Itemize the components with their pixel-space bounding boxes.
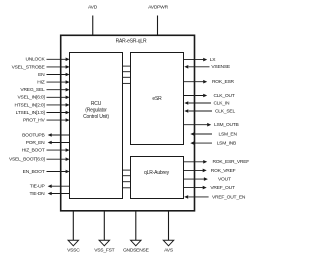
wire HIZ input	[37, 80, 69, 86]
wire UNLOCK input	[25, 57, 69, 63]
wire VREF_OUT output	[184, 185, 235, 191]
wire ROK_ESR_VREF output	[184, 159, 250, 165]
svg-text:Control Unit): Control Unit)	[83, 114, 109, 120]
bus RCU to qLR wire 2	[122, 175, 131, 177]
wire LSM_OUTB output	[184, 122, 239, 128]
wire TIE-UP output	[30, 184, 70, 190]
block qLR-Aubrey	[131, 157, 184, 199]
bus RCU to qLR wire 3	[122, 181, 131, 183]
wire HIZ_BOOT input	[22, 148, 70, 154]
svg-text:RCU: RCU	[91, 101, 102, 107]
bus RCU to qLR wire 4	[122, 187, 131, 189]
pin AVS	[163, 211, 174, 254]
outer block RAR-eSR-qLR	[61, 35, 195, 211]
svg-text:ROK_ESR: ROK_ESR	[212, 79, 235, 85]
svg-text:TIE-UP: TIE-UP	[30, 184, 45, 190]
svg-text:LSM_INB: LSM_INB	[217, 141, 236, 147]
svg-text:BOOTUPB: BOOTUPB	[22, 132, 44, 138]
svg-text:VSENSE: VSENSE	[211, 64, 230, 70]
svg-text:LTSEL_IN[1:0]: LTSEL_IN[1:0]	[16, 110, 46, 116]
svg-text:POR_EN: POR_EN	[26, 140, 45, 146]
svg-text:VSEL_IN[6:0]: VSEL_IN[6:0]	[18, 95, 46, 101]
bus RCU to eSR wire 1	[122, 65, 131, 67]
wire VOUT output	[184, 177, 231, 183]
svg-text:eSR: eSR	[152, 96, 162, 102]
bus RCU to qLR wire 1	[122, 169, 131, 171]
wire EN_BOOT input	[23, 169, 70, 175]
svg-text:CLK_SEL: CLK_SEL	[215, 108, 235, 114]
wire TIE-DN output	[30, 191, 70, 197]
svg-text:UNLOCK: UNLOCK	[25, 57, 45, 63]
svg-text:VSSC: VSSC	[67, 248, 80, 254]
pin AVDPWR	[148, 5, 168, 36]
pin VSSC	[67, 211, 80, 254]
wire ROK_VREF output	[184, 168, 236, 174]
block RCU (Regulator Control Unit)	[70, 53, 123, 199]
wire CLK_SEL input	[184, 108, 235, 114]
bus RCU to eSR wire 3	[122, 76, 131, 78]
wire LSM_INB input	[190, 141, 236, 147]
wire POR_EN output	[26, 140, 70, 146]
wire VREF_OUT_EN input	[184, 194, 246, 200]
wire VREG_SEL input	[20, 87, 69, 93]
svg-text:ROK_VREF: ROK_VREF	[211, 168, 236, 174]
svg-text:CLK_OUT: CLK_OUT	[214, 93, 235, 99]
svg-text:HIZ: HIZ	[37, 80, 44, 86]
svg-text:VSS_FST: VSS_FST	[94, 248, 114, 254]
wire HTSEL_IN[2:0] input	[14, 102, 69, 108]
wire ROK_ESR output	[184, 79, 235, 85]
pin VSS_FST	[94, 211, 114, 254]
svg-text:LSM_OUTB: LSM_OUTB	[214, 122, 239, 128]
svg-text:TIE-DN: TIE-DN	[30, 191, 46, 197]
wire LX output	[184, 57, 217, 63]
wire PROT_HV input	[23, 118, 70, 124]
svg-text:EN: EN	[38, 72, 45, 78]
svg-text:AVDPWR: AVDPWR	[148, 5, 168, 11]
svg-text:HIZ_BOOT: HIZ_BOOT	[22, 148, 45, 154]
wire VSEL_BOOT[6:0] input	[9, 157, 70, 163]
svg-text:PROT_HV: PROT_HV	[23, 118, 46, 124]
wire LSM_EN input	[190, 131, 237, 137]
block eSR	[131, 53, 184, 145]
pin GNDSENSE	[123, 211, 150, 254]
svg-text:VREG_SEL: VREG_SEL	[20, 87, 45, 93]
bus RCU to eSR wire 4	[122, 82, 131, 84]
svg-text:CLK_IN: CLK_IN	[214, 100, 230, 106]
svg-text:qLR-Aubrey: qLR-Aubrey	[144, 170, 170, 176]
svg-text:VSEL_STROBE: VSEL_STROBE	[12, 64, 46, 70]
svg-text:AVD: AVD	[88, 5, 98, 11]
wire LTSEL_IN[1:0] input	[16, 110, 70, 116]
svg-text:(Regulator: (Regulator	[85, 107, 107, 113]
svg-text:HTSEL_IN[2:0]: HTSEL_IN[2:0]	[14, 102, 45, 108]
wire VSENSE input	[184, 64, 231, 70]
svg-text:AVS: AVS	[164, 248, 174, 254]
svg-text:LX: LX	[210, 57, 216, 63]
wire VSEL_STROBE input	[12, 64, 70, 70]
svg-text:ROK_ESR_VREF: ROK_ESR_VREF	[213, 159, 250, 165]
bus RCU to eSR wire 2	[122, 71, 131, 73]
svg-text:VREF_OUT: VREF_OUT	[210, 185, 235, 191]
svg-text:RAR-eSR-qLR: RAR-eSR-qLR	[116, 39, 147, 45]
wire BOOTUPB output	[22, 132, 70, 138]
wire CLK_IN input	[184, 100, 230, 106]
svg-text:VREF_OUT_EN: VREF_OUT_EN	[212, 194, 246, 200]
wire VSEL_IN[6:0] input	[18, 95, 70, 101]
pin AVD	[88, 5, 98, 36]
wire EN input	[38, 72, 69, 78]
svg-text:VOUT: VOUT	[218, 177, 231, 183]
svg-text:GNDSENSE: GNDSENSE	[123, 248, 150, 254]
svg-text:EN_BOOT: EN_BOOT	[23, 169, 45, 175]
wire CLK_OUT output	[184, 93, 235, 99]
svg-text:LSM_EN: LSM_EN	[219, 131, 238, 137]
svg-text:VSEL_BOOT[6:0]: VSEL_BOOT[6:0]	[9, 157, 45, 163]
